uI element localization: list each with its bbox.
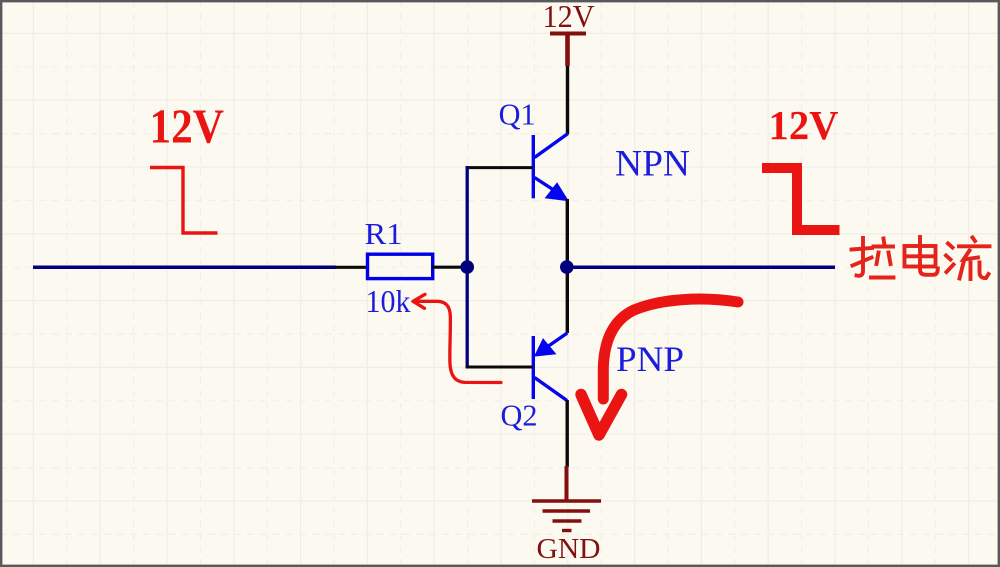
svg-text:PNP: PNP [616, 339, 684, 379]
hanzi 流 [946, 238, 990, 280]
annotation: input 12V step waveform [150, 168, 218, 234]
wire: Q1 emitter down to output junction [566, 199, 569, 267]
power symbol 12V (top) [550, 34, 586, 67]
wire: output junction down to Q2 emitter [566, 267, 569, 334]
transistor Q2 (PNP) [533, 333, 567, 401]
svg-text:10k: 10k [366, 284, 411, 319]
svg-text:12V: 12V [769, 102, 839, 148]
resistor R1 [368, 254, 433, 278]
wire: output net (right horizontal) [567, 266, 835, 270]
annotation: curly arrow pointing to 10k [413, 294, 501, 382]
ground symbol [532, 466, 601, 531]
wire: Q2 base horizontal [466, 366, 534, 369]
annotation: big curved arrow to PNP [581, 299, 738, 435]
wire: Q2 collector down to ground [566, 400, 569, 467]
svg-text:12V: 12V [543, 0, 595, 34]
annotation: text 拉电流 (pull current) [852, 237, 990, 279]
wire: 12V supply to Q1 collector [566, 66, 569, 134]
svg-text:GND: GND [537, 533, 601, 565]
hanzi 电 [905, 237, 938, 275]
wire: base column vertical [466, 166, 469, 369]
hanzi 拉 [852, 238, 894, 278]
svg-text:12V: 12V [150, 99, 225, 154]
annotation: output 12V step waveform (thick) [762, 168, 840, 230]
node: output junction [560, 260, 574, 274]
svg-text:Q2: Q2 [501, 398, 538, 433]
node: R1 output / base junction [460, 260, 474, 274]
pin: R1 left [335, 266, 368, 269]
svg-text:R1: R1 [365, 216, 403, 251]
wire: Q1 base horizontal [466, 166, 533, 169]
pin: R1 right [432, 266, 463, 269]
svg-text:NPN: NPN [615, 144, 690, 185]
transistor Q1 (NPN) [533, 134, 568, 201]
wire: input net (left horizontal) [33, 266, 336, 270]
svg-text:Q1: Q1 [499, 97, 536, 132]
